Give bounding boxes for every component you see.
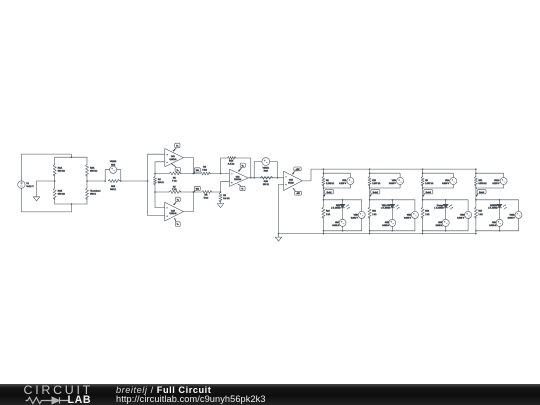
svg-text:L TL 3076Z: L TL 3076Z: [488, 208, 498, 210]
wire OA2 - input riser: [155, 192, 165, 208]
svg-text:1 kΩ: 1 kΩ: [326, 214, 331, 216]
wire OA4 + input: [279, 184, 284, 233]
svg-text:980 Ω: 980 Ω: [110, 189, 116, 191]
node block4 subbox tl: [475, 199, 477, 201]
svg-text:1 kΩ: 1 kΩ: [479, 214, 484, 216]
resistor R8: [202, 191, 212, 200]
svg-text:1.189 kΩ: 1.189 kΩ: [326, 183, 335, 185]
svg-text:−: −: [285, 177, 286, 179]
svg-text:R10: R10: [229, 161, 234, 163]
attribution text: [116, 385, 211, 395]
thermistor RT1: [86, 188, 101, 200]
wire left branch bottom: [54, 198, 56, 204]
svg-text:0.008 A: 0.008 A: [489, 224, 496, 227]
node bridge bottom: [71, 203, 73, 205]
node block4 vm tap top: [475, 172, 477, 174]
wire block2 left mid: [369, 185, 371, 200]
node block1 led bottom: [342, 230, 344, 232]
svg-text:VM4: VM4: [445, 180, 450, 182]
svg-text:Node1: Node1: [327, 192, 332, 194]
ground GND1: [33, 197, 39, 201]
LED D4 GREEN: [488, 200, 507, 220]
svg-text:R5: R5: [173, 177, 177, 179]
wire block4 left mid: [475, 185, 477, 200]
svg-text:0.008 V: 0.008 V: [351, 217, 359, 219]
ammeter AM4 block4: [489, 219, 503, 231]
node block4 subbox bl: [475, 230, 477, 232]
svg-text:1.067 kΩ: 1.067 kΩ: [425, 183, 434, 185]
svg-text:VM11: VM11: [510, 214, 516, 216]
wire ground bus: [279, 233, 476, 235]
voltmeter VM8 block1: [323, 173, 354, 188]
node R08 left: [104, 180, 106, 182]
wire block2 subbox bottom: [370, 230, 415, 232]
resistor R1B: [53, 188, 65, 200]
footer bar: [0, 384, 540, 405]
wire OA3 + riser: [221, 182, 230, 192]
svg-text:−: −: [231, 174, 232, 176]
svg-text:OA3: OA3: [236, 175, 240, 178]
svg-text:V−: V−: [177, 224, 179, 226]
svg-text:VA1: VA1: [196, 169, 199, 172]
voltmeter VMM2: [105, 161, 121, 181]
svg-text:VM8: VM8: [342, 180, 347, 182]
svg-text:7 kΩ: 7 kΩ: [172, 180, 177, 182]
node VM loop left: [253, 177, 255, 179]
node block1 rail: [323, 168, 325, 170]
power flag OA4 V-: [293, 188, 302, 195]
resistor lower block1: [322, 200, 331, 234]
node flag Node1: [324, 190, 334, 197]
svg-text:0.008 A: 0.008 A: [382, 224, 389, 227]
svg-text:R9: R9: [223, 195, 227, 197]
node bridge left mid: [54, 180, 56, 182]
resistor R7: [155, 186, 181, 193]
node block4 led top: [499, 199, 501, 201]
url text: [116, 394, 266, 404]
wire block1 left vertical top: [322, 169, 324, 176]
svg-text:R17: R17: [479, 211, 484, 213]
svg-text:L TL 3076Z: L TL 3076Z: [331, 208, 341, 210]
voltage source V1: [18, 181, 35, 188]
node OA1 out joins rail: [193, 173, 195, 175]
power flag OA3 V-: [238, 184, 245, 191]
svg-text:R6: R6: [326, 180, 329, 182]
wire bottom rail to OA3: [211, 191, 221, 193]
node block4 bus: [475, 233, 477, 235]
voltmeter VM9 block1: [351, 200, 365, 231]
svg-text:3.4 kΩ: 3.4 kΩ: [223, 198, 230, 200]
node block2 subbox bl: [369, 230, 371, 232]
svg-text:R14: R14: [326, 211, 331, 213]
node block2 vm tap top: [369, 172, 371, 174]
node block3 subbox tl: [422, 199, 424, 201]
node block4 vm tap bottom: [475, 187, 477, 189]
feedback resistor R10: [221, 157, 251, 178]
wire bridge top rail: [55, 156, 87, 158]
svg-text:V+: V+: [177, 200, 179, 202]
svg-text:V−: V−: [177, 170, 179, 172]
svg-text:5 kΩ: 5 kΩ: [202, 170, 207, 172]
LED D2 YELLOW: [381, 200, 400, 220]
svg-text:LM6144: LM6144: [169, 159, 176, 161]
wire R9 to ground: [220, 201, 222, 204]
wire top rail mid: [180, 173, 201, 175]
svg-text:R7: R7: [173, 186, 177, 188]
svg-text:R06: R06: [264, 171, 269, 173]
svg-text:380 kΩ: 380 kΩ: [58, 193, 65, 195]
svg-text:0.008 V: 0.008 V: [508, 217, 516, 219]
svg-text:R4: R4: [158, 179, 162, 181]
wire inamp input vertical: [147, 154, 149, 215]
wire block1 top rail: [323, 168, 369, 170]
node block2 led top: [392, 199, 394, 201]
voltmeter VMM1: [254, 158, 277, 178]
node bridge top: [71, 156, 73, 158]
node OA3 plus tap: [220, 191, 222, 193]
resistor R06: [260, 176, 273, 186]
node block2 bus: [369, 233, 371, 235]
svg-text:VMM2: VMM2: [110, 161, 117, 163]
svg-text:R6: R6: [203, 167, 207, 169]
wire OA2 + input: [148, 214, 165, 216]
node flag VA1: [193, 168, 200, 174]
resistor R9 block3: [421, 177, 434, 187]
wire OA3 output: [248, 177, 284, 179]
node block1 vm tap top: [323, 172, 325, 174]
svg-text:R15: R15: [372, 211, 377, 213]
LED D3 Orange: [434, 200, 453, 220]
wire block3 left vertical top: [422, 169, 424, 176]
voltmeter VM11 block4: [508, 200, 522, 231]
wire block4 left vertical top: [475, 169, 477, 176]
wire bridge output: [87, 180, 105, 182]
node block2 subbox tl: [369, 199, 371, 201]
wire OA4 output to rail: [302, 169, 323, 181]
node block3 led bottom: [445, 230, 447, 232]
svg-text:OA5: OA5: [289, 179, 293, 182]
svg-text:V+: V+: [242, 165, 244, 167]
wire to inamp: [121, 180, 148, 182]
svg-text:1 kΩ: 1 kΩ: [372, 214, 377, 216]
svg-text:0.089 V: 0.089 V: [442, 183, 450, 185]
resistor R4 gain: [154, 174, 165, 193]
voltmeter VM10 block4: [476, 173, 507, 188]
wire to ground: [37, 181, 55, 197]
svg-text:VA2: VA2: [196, 188, 199, 191]
node top rail left: [154, 173, 156, 175]
node block4 led bottom: [499, 230, 501, 232]
svg-text:R08: R08: [111, 165, 116, 167]
svg-text:VMM1: VMM1: [263, 168, 270, 170]
wire block2 left vertical top: [369, 169, 371, 176]
node block3 led top: [445, 199, 447, 201]
node block2 vm tap bottom: [369, 187, 371, 189]
resistor R10 block2: [368, 177, 381, 187]
node block1 subbox tl: [323, 199, 325, 201]
svg-text:R9: R9: [425, 180, 428, 182]
resistor R5: [155, 172, 181, 182]
svg-text:1.067 kΩ: 1.067 kΩ: [372, 183, 381, 185]
wire block2 subbox top: [370, 199, 415, 201]
svg-text:V+: V+: [176, 146, 178, 148]
ground GND2: [217, 204, 223, 208]
circuitlab logo text: [24, 383, 94, 397]
wire OA1 + input: [148, 153, 165, 155]
node flag Node2: [370, 190, 380, 197]
svg-text:R06: R06: [264, 181, 269, 183]
wire right branch bottom: [86, 198, 88, 204]
node block1 led top: [342, 199, 344, 201]
power flag OA4 V+: [292, 167, 301, 174]
svg-text:L TL 3076Z: L TL 3076Z: [381, 208, 391, 210]
svg-text:0.208 V: 0.208 V: [339, 183, 347, 185]
ammeter AM2 block2: [382, 219, 396, 231]
svg-text:VM9: VM9: [354, 214, 359, 216]
wire OA1 output: [184, 158, 194, 174]
svg-text:Node4: Node4: [479, 192, 484, 194]
wire V1 bottom loop: [22, 188, 72, 212]
resistor R6 block1: [322, 177, 335, 187]
resistor R08: [108, 180, 119, 192]
svg-text:−: −: [167, 162, 168, 164]
svg-text:R1B: R1B: [58, 190, 63, 192]
svg-text:V−: V−: [241, 189, 243, 191]
wire OA1 - input riser: [155, 162, 165, 174]
voltmeter VM6 block2: [370, 173, 404, 188]
voltmeter VM5 block2: [404, 200, 418, 231]
wire block1 left mid: [322, 185, 324, 200]
svg-text:Thermistor: Thermistor: [90, 189, 101, 192]
op-amp OA1: [165, 149, 184, 167]
svg-text:380 Ω: 380 Ω: [90, 193, 96, 195]
node inamp input: [147, 180, 149, 182]
node flag VA2: [193, 186, 200, 192]
svg-text:0.950 kΩ: 0.950 kΩ: [479, 183, 488, 185]
svg-text:R1A: R1A: [58, 166, 63, 169]
svg-text:0.008 A: 0.008 A: [436, 224, 443, 227]
node bottom rail left: [154, 191, 156, 193]
node block1 bus: [323, 233, 325, 235]
wire block4 subbox top: [476, 199, 519, 201]
svg-text:R16: R16: [425, 211, 430, 213]
svg-text:FL500: FL500: [288, 182, 293, 184]
ammeter AM3 block3: [436, 219, 450, 231]
svg-text:3.4 kΩ: 3.4 kΩ: [228, 164, 235, 166]
power flag OA2 V-: [174, 218, 180, 226]
op-amp OA3: [230, 169, 249, 186]
svg-text:LM6144: LM6144: [169, 213, 176, 215]
logo schematic squiggle: [23, 396, 69, 405]
power flag OA3 V+: [238, 163, 245, 171]
node bus start: [278, 233, 280, 235]
resistor R9: [219, 193, 230, 203]
power flag OA1 V+: [173, 143, 180, 151]
svg-text:VM10: VM10: [494, 180, 500, 182]
svg-text:0.089 V: 0.089 V: [389, 183, 397, 185]
svg-text:1 kΩ: 1 kΩ: [425, 214, 430, 216]
node OA2 out joins rail: [193, 191, 195, 193]
wire block3 top rail: [423, 168, 476, 170]
wire OA2 output: [183, 192, 193, 212]
svg-text:VM6: VM6: [392, 180, 397, 182]
node block3 rail: [422, 168, 424, 170]
svg-text:R8: R8: [205, 195, 209, 197]
op-amp OA2: [165, 202, 184, 221]
resistor R6: [200, 167, 210, 176]
svg-text:0.008 V: 0.008 V: [404, 217, 412, 219]
resistor lower block3: [421, 200, 430, 234]
svg-text:R12: R12: [479, 180, 484, 182]
svg-text:VM3: VM3: [460, 214, 465, 216]
wire V1 top loop: [22, 154, 72, 181]
node block1 subbox bl: [323, 230, 325, 232]
svg-text:R08: R08: [111, 186, 116, 188]
svg-text:380 kΩ: 380 kΩ: [58, 170, 65, 172]
wire block1 subbox bottom: [323, 230, 361, 232]
wire left branch mid: [54, 175, 56, 188]
wire block3 subbox bottom: [423, 230, 469, 232]
resistor R2A: [86, 157, 98, 176]
ammeter AM1 block1: [332, 219, 346, 231]
svg-text:Node3: Node3: [426, 192, 431, 194]
svg-text:OA1: OA1: [171, 155, 175, 158]
svg-text:LM6144: LM6144: [234, 179, 241, 181]
node R08 right: [120, 180, 122, 182]
node block3 vm tap top: [422, 172, 424, 174]
svg-text:380 kΩ: 380 kΩ: [90, 170, 97, 172]
voltmeter VM4 block3: [423, 173, 457, 188]
svg-text:0.008 V: 0.008 V: [457, 217, 465, 219]
op-amp OA4: [284, 171, 303, 190]
svg-text:−: −: [167, 208, 168, 210]
wire right branch mid: [86, 175, 88, 188]
svg-text:500 Ω: 500 Ω: [158, 182, 164, 184]
LED D1 RED: [331, 200, 350, 220]
node block3 subbox bl: [422, 230, 424, 232]
voltmeter VM3 block3: [457, 200, 471, 231]
wire block4 subbox bottom: [476, 230, 519, 232]
node block1 vm tap bottom: [323, 187, 325, 189]
node feedback tap: [220, 173, 222, 175]
node block2 led bottom: [392, 230, 394, 232]
node flag Node3: [423, 190, 433, 197]
node VM loop right: [277, 177, 279, 179]
svg-text:Node2: Node2: [373, 192, 378, 194]
wire block2 top rail: [370, 168, 423, 170]
wire top rail to OA3: [209, 173, 229, 175]
wire bridge bottom rail: [55, 203, 87, 205]
power flag OA2 V+: [173, 197, 180, 205]
svg-text:0.008 A: 0.008 A: [332, 224, 339, 227]
wire bottom rail mid: [180, 191, 202, 193]
svg-text:R2A: R2A: [90, 166, 95, 169]
svg-text:L TL 3076Z: L TL 3076Z: [434, 208, 444, 210]
resistor R12 block4: [474, 177, 487, 187]
ground GND3: [275, 234, 281, 242]
node bridge right mid: [86, 180, 88, 182]
svg-text:R10: R10: [372, 180, 377, 182]
node block3 bus: [422, 233, 424, 235]
resistor lower block4: [474, 200, 483, 234]
wire block1 subbox top: [323, 199, 361, 201]
node flag Node4: [476, 190, 486, 197]
resistor R1A: [53, 157, 65, 176]
node block2 rail: [369, 168, 371, 170]
node block4 rail: [475, 168, 477, 170]
svg-text:V=2.5 V: V=2.5 V: [26, 186, 34, 188]
svg-text:0.208 V: 0.208 V: [492, 183, 500, 185]
svg-text:OA2: OA2: [171, 209, 175, 212]
wire block3 left mid: [422, 185, 424, 200]
resistor lower block2: [368, 200, 377, 234]
node block3 vm tap bottom: [422, 187, 424, 189]
svg-text:7 kΩ: 7 kΩ: [172, 189, 177, 191]
svg-text:980 Ω: 980 Ω: [263, 184, 269, 186]
power flag OA1 V-: [171, 164, 180, 172]
svg-text:VM5: VM5: [407, 214, 412, 216]
wire block3 subbox top: [423, 199, 469, 201]
node feedback join: [250, 177, 252, 179]
svg-text:5 kΩ: 5 kΩ: [204, 198, 209, 200]
